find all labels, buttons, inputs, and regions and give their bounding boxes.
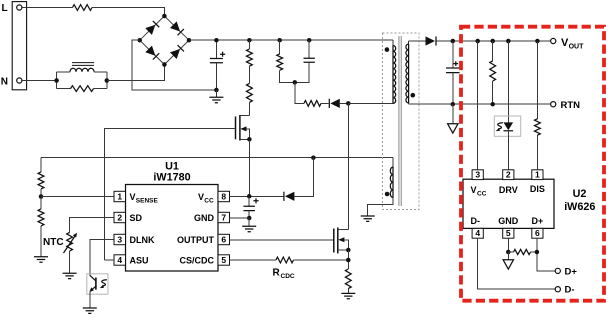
svg-text:1: 1 <box>535 169 540 179</box>
IC U1 box <box>126 185 219 272</box>
bulk capacitor C1 <box>215 40 217 58</box>
transistor Q2 source stub <box>338 249 349 251</box>
ground below C3 <box>248 218 250 226</box>
node bus snubber R <box>277 38 282 43</box>
wire Q1 source to VCC <box>248 139 250 196</box>
wire secondary top <box>409 40 426 42</box>
svg-text:6: 6 <box>535 228 540 238</box>
optocoupler phototransistor <box>95 278 97 290</box>
wire Q2 source down <box>347 250 349 269</box>
clamp capacitor C2 <box>308 40 310 58</box>
node Q1 source <box>247 137 252 142</box>
U1 pin 3 box <box>114 234 126 244</box>
secondary polarity dot <box>411 93 416 98</box>
svg-text:OUTPUT: OUTPUT <box>177 235 215 245</box>
wire RTN rail <box>409 103 551 105</box>
wire LED to U2 DRV <box>507 131 509 170</box>
startup resistor R2a <box>248 40 250 49</box>
primary winding <box>392 40 394 45</box>
output rectifier D7 <box>426 36 436 45</box>
svg-text:D+: D+ <box>532 216 544 226</box>
node choke left <box>54 78 59 83</box>
svg-text:D-: D- <box>471 216 481 226</box>
terminal N <box>17 78 22 83</box>
U1 pin 7 box <box>218 212 230 222</box>
node VSENSE tap <box>39 194 44 199</box>
wire U2 GND down <box>507 238 509 252</box>
U2 pin 1 box <box>532 170 543 180</box>
node bridge top <box>162 14 167 19</box>
bridge diode D4 (bottom-right arm) <box>170 45 184 59</box>
ground below divider <box>34 257 48 262</box>
svg-text:DIS: DIS <box>530 184 545 194</box>
wire diode D6 anode <box>294 158 313 197</box>
svg-text:U2: U2 <box>573 188 587 200</box>
svg-text:OUT: OUT <box>569 44 585 51</box>
node clamp <box>293 80 298 85</box>
wire RCDC to source node <box>294 259 349 261</box>
U2 pin 4 box <box>472 228 483 238</box>
U2 ground symbol <box>507 252 509 260</box>
node U2 GND <box>506 250 511 255</box>
primary polarity dot <box>385 47 390 52</box>
secondary ground symbol <box>448 124 458 133</box>
transformer core <box>398 36 400 206</box>
svg-text:3: 3 <box>117 235 122 245</box>
wire N to choke <box>22 80 57 82</box>
node D+ R10 <box>535 250 540 255</box>
node bus snubber C <box>307 38 312 43</box>
node Vout C4 <box>451 39 456 44</box>
node drain primary <box>346 101 351 106</box>
terminal VOUT <box>551 38 556 43</box>
bridge diode D3 (left-bottom arm) <box>145 46 159 60</box>
U1 pin 2 box <box>114 212 126 222</box>
transistor Q1 gate bar <box>235 117 237 140</box>
svg-text:DRV: DRV <box>499 185 518 195</box>
node Vout opto <box>506 39 511 44</box>
wire D6 to VCC node <box>249 195 283 197</box>
wire drain vertical <box>347 103 349 229</box>
transistor Q2 body arrow <box>338 237 344 242</box>
clamp series resistor R4 <box>304 101 321 107</box>
node Vout VCC line <box>475 39 480 44</box>
U2 pin 6 box <box>532 228 543 238</box>
output capacitor C4 <box>452 41 454 68</box>
divider resistor R5 <box>40 158 42 172</box>
bridge frame <box>140 16 189 65</box>
node VCC <box>247 194 252 199</box>
wire pin 4 ASU <box>105 259 114 261</box>
fusible resistor RF1 <box>73 5 93 11</box>
svg-text:SENSE: SENSE <box>136 198 159 205</box>
svg-text:5: 5 <box>506 228 511 238</box>
resistor RCDC <box>276 257 294 263</box>
red dashed boundary box <box>461 27 604 301</box>
optocoupler LED box <box>494 116 520 136</box>
svg-text:GND: GND <box>194 213 215 223</box>
svg-text:5: 5 <box>221 255 226 265</box>
wire U2 D- down <box>478 238 556 289</box>
svg-text:2: 2 <box>117 213 122 223</box>
NTC arrow <box>64 236 76 253</box>
svg-text:D+: D+ <box>565 266 578 277</box>
wire bridge negative return <box>132 40 216 90</box>
node bus startup chain <box>247 38 252 43</box>
opto light arrow <box>102 280 107 286</box>
U2 pin 5 box <box>503 228 514 238</box>
transistor Q1 channel <box>239 115 241 141</box>
U1 pin 1 box <box>114 191 126 201</box>
bridge diode D1 (left-top arm) <box>145 21 159 35</box>
wire pin 3 to opto collector <box>90 240 114 276</box>
node C3 bottom GND pin <box>247 216 252 221</box>
U2 pin 2 box <box>503 170 514 180</box>
node Q2 source <box>346 248 351 253</box>
node bridge left <box>137 38 142 43</box>
ground below opto <box>83 308 97 313</box>
U1 pin 6 box <box>218 234 230 244</box>
clamp diode D5 <box>330 99 340 108</box>
optocoupler LED <box>504 122 514 130</box>
svg-text:L: L <box>2 3 8 14</box>
wire DC bus <box>189 39 393 41</box>
svg-text:CS/CDC: CS/CDC <box>179 256 214 266</box>
transistor Q2 gate bar <box>333 229 335 253</box>
wire RTN to sec ground <box>452 104 454 124</box>
svg-text:GND: GND <box>498 216 519 226</box>
U2 pin 3 box <box>472 170 483 180</box>
secondary winding <box>408 41 410 44</box>
wire Vout to opto LED <box>507 41 509 122</box>
transistor Q1 drain stub <box>240 115 250 117</box>
optocoupler transistor box <box>87 274 108 294</box>
wire pin 6 OUTPUT to gate <box>230 239 334 241</box>
choke winding <box>70 68 94 72</box>
svg-text:N: N <box>1 77 8 88</box>
current sense resistor R7 <box>345 269 351 289</box>
terminal D- <box>555 287 560 292</box>
node Vout R8 <box>490 39 495 44</box>
svg-text:SD: SD <box>130 213 143 223</box>
wire pin 7 GND <box>230 217 250 219</box>
svg-text:NTC: NTC <box>43 237 64 248</box>
svg-text:CDC: CDC <box>281 273 295 280</box>
bridge diode D2 (top-right arm) <box>170 21 184 35</box>
node bus C1 <box>214 38 219 43</box>
svg-text:ASU: ASU <box>130 256 149 266</box>
IC U2 box <box>463 179 554 228</box>
svg-text:CC: CC <box>477 191 487 198</box>
wire pin 8 to VCC node <box>230 195 250 197</box>
svg-text:CC: CC <box>204 198 214 205</box>
node R8 RTN <box>490 102 495 107</box>
svg-text:DLNK: DLNK <box>130 235 155 245</box>
transistor Q1 body arrow <box>240 126 246 131</box>
svg-text:iW1780: iW1780 <box>153 172 190 184</box>
node choke right <box>105 78 110 83</box>
terminal RTN <box>551 102 556 107</box>
LED light arrow <box>498 123 503 129</box>
svg-text:V: V <box>471 185 477 195</box>
ground below NTC <box>63 273 77 278</box>
wire D5 to drain node <box>340 102 349 104</box>
divider resistor R6 <box>40 197 42 209</box>
node bridge bottom <box>162 62 167 67</box>
startup resistor R2b <box>248 66 250 83</box>
svg-text:R: R <box>273 268 281 279</box>
svg-text:V: V <box>198 192 204 202</box>
wire R4 to D5 <box>321 102 329 104</box>
AC input terminal block <box>12 2 26 90</box>
wire aux sense line <box>41 157 393 159</box>
ground below R7 <box>341 293 355 298</box>
U1 pin 8 box <box>218 191 230 201</box>
U1 pin 5 box <box>218 255 230 265</box>
node C1 bottom <box>214 88 219 93</box>
wire Vout to U2 VCC <box>477 41 479 170</box>
choke core bars <box>72 63 94 66</box>
wire fuse to bridge top <box>92 8 164 17</box>
wire pin 5 to RCDC <box>230 259 277 261</box>
NTC thermistor body <box>67 232 73 251</box>
VCC capacitor C3 <box>248 196 250 206</box>
wire aux to ground <box>368 198 393 216</box>
node bridge right <box>187 38 192 43</box>
U1 pin 4 box <box>114 255 126 265</box>
svg-text:8: 8 <box>221 192 226 202</box>
svg-text:V: V <box>130 192 136 202</box>
svg-text:4: 4 <box>117 255 122 265</box>
auxiliary winding <box>392 158 394 167</box>
choke damping resistor <box>71 86 94 92</box>
node C4 RTN <box>451 102 456 107</box>
wire VSENSE to pin 1 <box>41 196 114 198</box>
transistor Q2 channel <box>337 228 339 254</box>
wire pin 2 to NTC <box>70 218 114 233</box>
wire L to fuse <box>22 7 73 9</box>
transistor Q1 source stub <box>240 138 250 140</box>
U2 ground resistor R10 <box>508 251 513 253</box>
svg-text:iW626: iW626 <box>564 201 595 213</box>
VCC diode D6 <box>285 192 295 201</box>
wire Q1 gate to ASU <box>105 129 236 260</box>
svg-text:3: 3 <box>475 169 480 179</box>
wire clamp to R4 <box>295 82 304 103</box>
clamp resistor R3 <box>279 40 281 54</box>
node aux to VCC diode <box>311 155 316 160</box>
wire Vout rail <box>437 40 551 42</box>
wire U2 D+ down <box>537 238 555 271</box>
svg-text:D-: D- <box>565 285 575 296</box>
svg-text:RTN: RTN <box>561 100 581 111</box>
transistor Q2 drain stub <box>338 229 349 231</box>
ground below aux <box>361 216 375 221</box>
disable resistor R9 <box>536 41 538 119</box>
aux polarity dot <box>385 192 390 197</box>
node Vout R9 <box>535 39 540 44</box>
svg-text:1: 1 <box>117 192 122 202</box>
feedback resistor R8 <box>492 41 494 61</box>
svg-text:2: 2 <box>506 169 511 179</box>
terminal L <box>17 5 22 10</box>
ground below C1 <box>215 90 217 97</box>
svg-text:6: 6 <box>221 235 226 245</box>
terminal D+ <box>555 268 560 273</box>
node RCDC junction <box>346 258 351 263</box>
transformer shield box <box>383 33 420 210</box>
common-mode choke L1 frame <box>56 72 58 89</box>
svg-text:7: 7 <box>221 213 226 223</box>
wire primary bottom <box>348 102 393 104</box>
wire choke to bridge bottom <box>107 65 165 81</box>
svg-text:4: 4 <box>475 228 480 238</box>
